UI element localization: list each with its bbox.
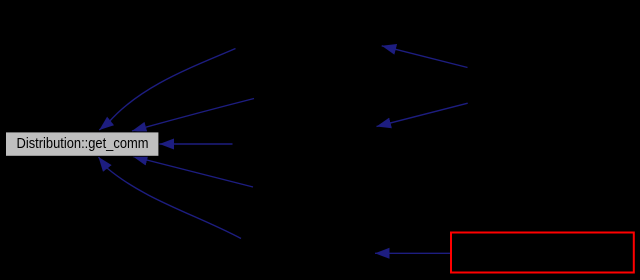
node highlighted (red bordered box, bottom right) (451, 233, 634, 273)
edge A: top curved caller edge into Distribution::get_comm (99, 49, 235, 131)
node Distribution::get_comm (grey filled box) (6, 132, 159, 156)
edge B: upper straight caller edge into Distribution::get_comm (132, 99, 254, 132)
edge F: upper-right edge into top middle node (382, 46, 468, 68)
edge E: bottom curved caller edge into Distribution::get_comm (99, 157, 242, 239)
svg-text:Distribution::get_comm: Distribution::get_comm (17, 136, 149, 152)
edge C: horizontal caller edge into Distribution::get_comm (160, 143, 233, 145)
edge H: edge from red node into bottom middle node (375, 252, 450, 254)
edge D: lower straight caller edge into Distribution::get_comm (133, 157, 253, 188)
edge G: lower-right edge into second middle node (377, 103, 468, 126)
